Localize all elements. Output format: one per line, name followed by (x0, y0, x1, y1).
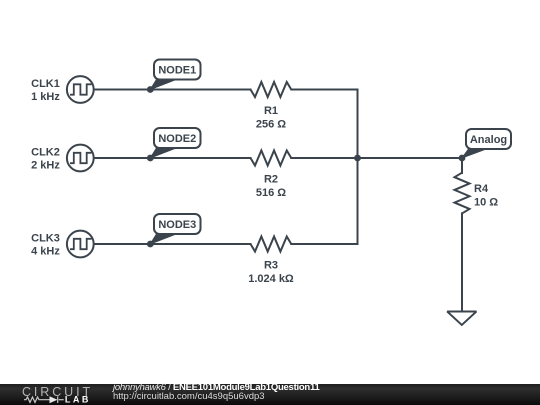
junction dot bus row2 (354, 155, 361, 162)
svg-text:LAB: LAB (65, 395, 91, 405)
svg-text:R2: R2 (264, 174, 278, 186)
svg-text:256 Ω: 256 Ω (256, 118, 286, 130)
svg-text:10 Ω: 10 Ω (474, 196, 498, 208)
svg-text:Analog: Analog (470, 134, 507, 146)
node Analog flag (462, 129, 511, 158)
node NODE3 flag (150, 214, 200, 244)
wire row1 CLK1 to R1 (94, 89, 250, 91)
svg-text:NODE3: NODE3 (158, 219, 196, 231)
svg-text:R1: R1 (264, 105, 278, 117)
footer credit text (113, 383, 320, 402)
svg-text:NODE2: NODE2 (158, 133, 196, 145)
junction dot Analog (459, 155, 466, 162)
junction dot NODE1 (147, 86, 154, 93)
clock source CLK2 (31, 145, 94, 172)
svg-text:CLK2: CLK2 (31, 147, 60, 159)
resistor R3 (248, 237, 294, 285)
svg-text:CLK1: CLK1 (31, 78, 60, 90)
footer bar (0, 384, 540, 405)
svg-text:4 kHz: 4 kHz (31, 246, 60, 258)
clock source CLK1 (31, 76, 94, 103)
resistor R2 (251, 151, 292, 199)
svg-text:R3: R3 (264, 260, 278, 272)
CircuitLab logo (0, 384, 110, 405)
wire row2 R2 to Analog node (291, 157, 462, 159)
svg-text:R4: R4 (474, 183, 489, 195)
logo resistor + diode (24, 396, 64, 403)
node NODE1 flag (150, 60, 200, 90)
svg-text:NODE1: NODE1 (158, 65, 196, 77)
resistor R4 (455, 173, 499, 214)
wire R4 top lead (461, 158, 463, 173)
node NODE2 flag (150, 128, 200, 158)
junction dot NODE3 (147, 241, 154, 248)
wire row1 R1 to bus (291, 89, 357, 91)
wire R4 bottom to ground (461, 213, 463, 311)
svg-text:2 kHz: 2 kHz (31, 160, 60, 172)
svg-text:1 kHz: 1 kHz (31, 91, 60, 103)
wire vertical bus (357, 90, 359, 245)
clock source CLK3 (31, 231, 94, 258)
wire row3 R3 to bus (291, 243, 357, 245)
ground (447, 312, 476, 326)
wire row3 CLK3 to R3 (94, 243, 250, 245)
wire row2 CLK2 to R2 (94, 157, 250, 159)
junction dot NODE2 (147, 155, 154, 162)
svg-text:CLK3: CLK3 (31, 233, 60, 245)
svg-text:1.024 kΩ: 1.024 kΩ (248, 273, 294, 285)
svg-text:516 Ω: 516 Ω (256, 187, 286, 199)
resistor R1 (251, 82, 292, 130)
